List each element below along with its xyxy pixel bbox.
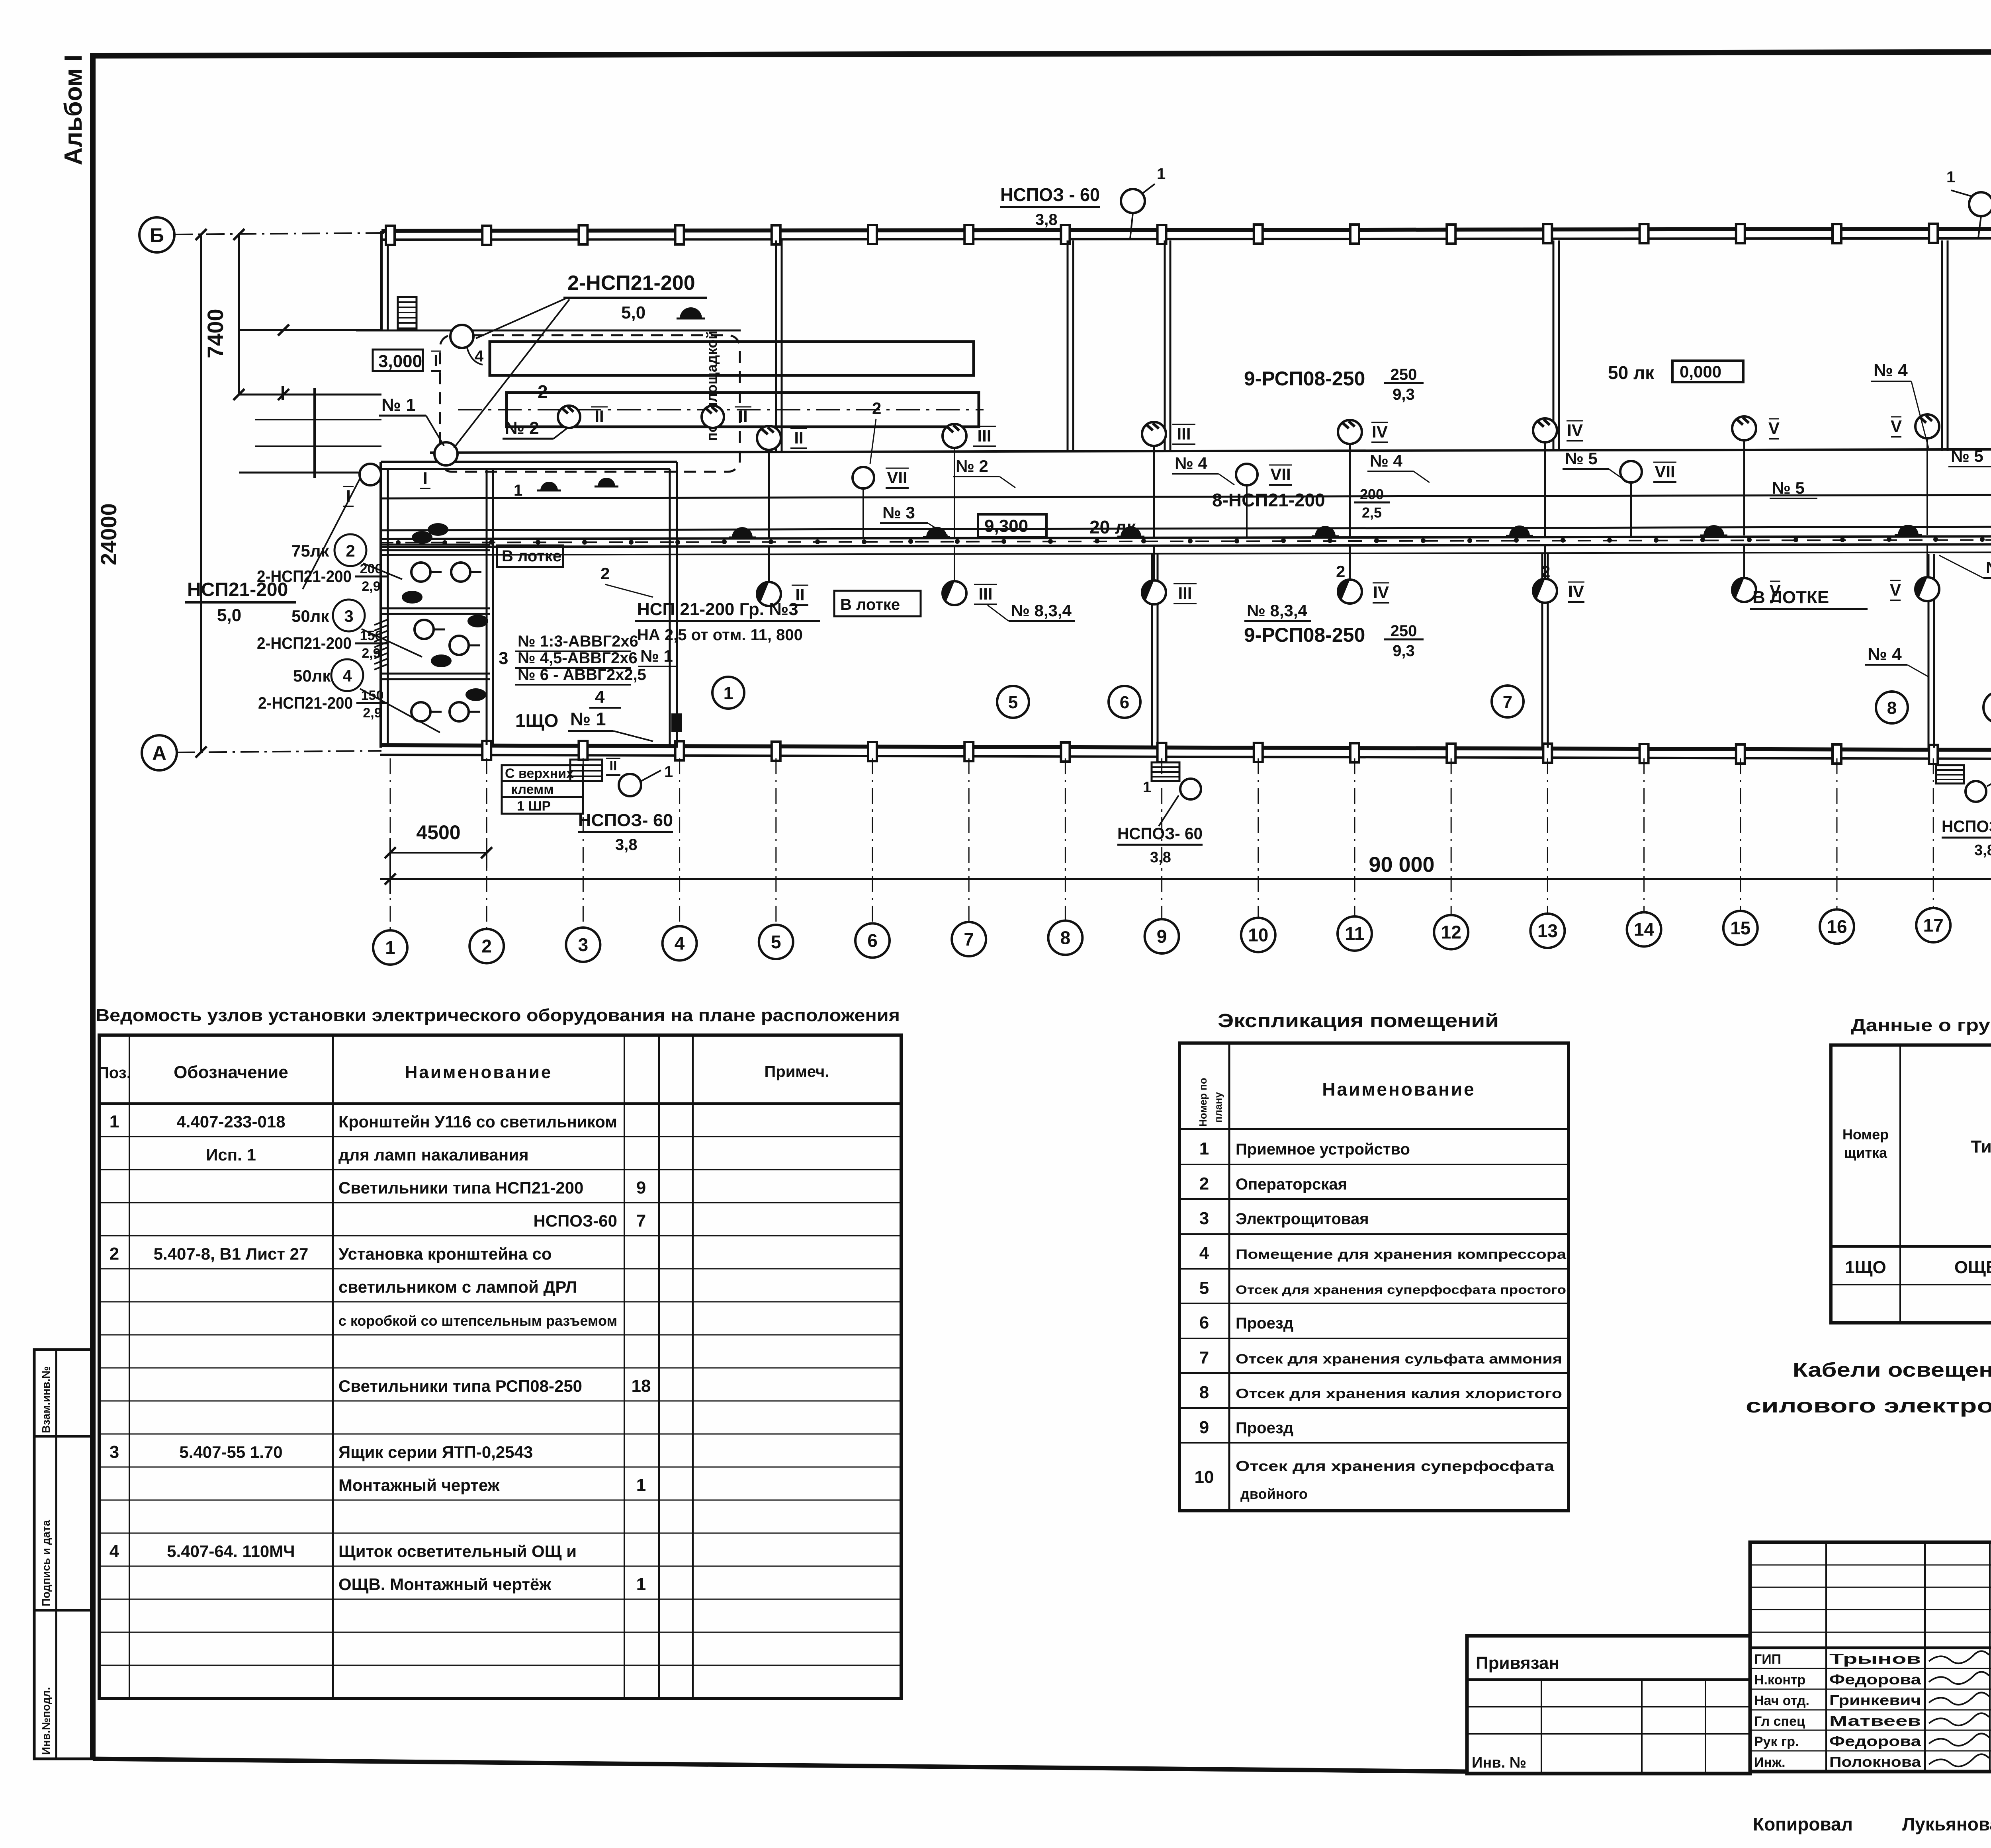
svg-text:I: I (423, 469, 428, 487)
svg-text:Гринкевич: Гринкевич (1829, 1692, 1921, 1708)
svg-text:V: V (1890, 580, 1901, 599)
svg-text:4: 4 (675, 933, 685, 954)
svg-text:Гл спец: Гл спец (1754, 1714, 1805, 1729)
svg-text:Проезд: Проезд (1236, 1315, 1293, 1332)
svg-text:7: 7 (964, 929, 974, 949)
svg-text:50 лк: 50 лк (1608, 362, 1655, 383)
lamps lower row (757, 582, 781, 606)
dimension 7400 (238, 234, 240, 395)
svg-text:3: 3 (578, 934, 589, 955)
svg-text:Монтажный чертеж: Монтажный чертеж (338, 1476, 500, 1494)
svg-text:3: 3 (344, 607, 353, 625)
svg-text:Трынов: Трынов (1829, 1651, 1921, 1667)
svg-text:НА 2,5 от отм. 11, 800: НА 2,5 от отм. 11, 800 (637, 626, 803, 644)
svg-text:5: 5 (771, 932, 781, 952)
svg-text:13: 13 (1537, 920, 1558, 941)
svg-text:№ 5: № 5 (1951, 447, 1983, 465)
svg-text:№ 4: № 4 (1370, 451, 1402, 470)
svg-text:ОЩВ- 6: ОЩВ- 6 (1954, 1258, 1991, 1277)
svg-text:3,000: 3,000 (378, 352, 422, 371)
svg-text:4500: 4500 (416, 821, 460, 844)
svg-text:7: 7 (1503, 692, 1512, 712)
svg-text:№ 4: № 4 (1175, 454, 1207, 473)
svg-text:1: 1 (664, 763, 673, 781)
svg-text:2: 2 (1336, 562, 1345, 581)
conveyor line 1 (380, 494, 1991, 498)
column grid circles 1-21 (390, 758, 391, 930)
svg-text:2: 2 (1199, 1174, 1209, 1194)
svg-text:№ 6 - АВВГ2х2,5: № 6 - АВВГ2х2,5 (518, 666, 646, 684)
svg-text:III: III (1177, 424, 1191, 443)
svg-text:С верхних: С верхних (505, 766, 574, 781)
label v lotke box left (497, 545, 563, 567)
svg-text:0,000: 0,000 (1680, 362, 1721, 381)
svg-text:1: 1 (636, 1575, 646, 1594)
svg-text:№ 4: № 4 (1868, 645, 1902, 664)
lamps in left rooms (411, 563, 430, 582)
lamp I mid (434, 442, 458, 465)
svg-text:3,8: 3,8 (615, 836, 638, 854)
svg-text:VII: VII (1270, 465, 1291, 484)
svg-text:Щиток осветительный ОЩ и: Щиток осветительный ОЩ и (338, 1542, 577, 1561)
svg-text:2,5: 2,5 (1362, 504, 1382, 521)
dimension 90000 (380, 878, 1991, 880)
svg-text:Приемное устройство: Приемное устройство (1236, 1141, 1410, 1158)
svg-text:16: 16 (1827, 916, 1847, 937)
svg-text:50лк: 50лк (293, 666, 331, 685)
svg-text:II: II (595, 407, 604, 426)
svg-text:Матвеев: Матвеев (1829, 1713, 1921, 1729)
grid axis А circle (142, 735, 177, 770)
svg-text:№ 5: № 5 (1565, 449, 1598, 468)
corridor line lower (380, 552, 1991, 555)
svg-text:8: 8 (1060, 928, 1071, 948)
partition walls upper (775, 240, 777, 451)
corridor line upper (430, 449, 1991, 453)
svg-text:№ 1: № 1 (640, 647, 673, 665)
svg-text:7: 7 (1199, 1348, 1209, 1367)
bunker rectangle 1 (490, 342, 974, 375)
svg-text:2,9: 2,9 (362, 646, 380, 661)
domes on cable tray (732, 527, 753, 537)
tray dashes (380, 539, 1991, 543)
svg-text:НСПОЗ-60: НСПОЗ-60 (533, 1211, 617, 1230)
svg-text:светильником с лампой ДРЛ: светильником с лампой ДРЛ (338, 1278, 577, 1296)
svg-text:8-НСП21-200: 8-НСП21-200 (1212, 490, 1325, 510)
svg-text:№ 2: № 2 (956, 457, 988, 475)
svg-text:1: 1 (724, 684, 733, 703)
svg-text:№ 4: № 4 (1874, 361, 1908, 380)
svg-text:1: 1 (1199, 1139, 1209, 1158)
svg-text:II: II (738, 407, 747, 426)
platform edge line (356, 330, 741, 332)
bottom lamp NSPO3 left (570, 760, 602, 781)
svg-text:А: А (152, 742, 166, 764)
svg-text:6: 6 (1199, 1313, 1209, 1332)
svg-text:10: 10 (1195, 1467, 1214, 1487)
svg-text:250: 250 (1391, 366, 1417, 383)
svg-text:Рук гр.: Рук гр. (1754, 1734, 1799, 1749)
svg-text:№ 1: № 1 (381, 395, 416, 415)
bunker rectangle 2 (507, 393, 979, 427)
svg-text:1: 1 (110, 1112, 119, 1131)
svg-text:1: 1 (1946, 168, 1955, 186)
svg-text:6: 6 (867, 930, 878, 951)
svg-text:Копировал: Копировал (1753, 1814, 1853, 1834)
svg-text:Проезд: Проезд (1236, 1419, 1293, 1437)
table shchitki frame (1831, 1045, 1991, 1323)
svg-text:4: 4 (1199, 1243, 1209, 1263)
room number circles (712, 677, 744, 709)
svg-text:№ 3: № 3 (882, 503, 915, 522)
svg-text:VII: VII (1655, 462, 1675, 481)
domes in receiving room (540, 482, 558, 490)
svg-text:4: 4 (595, 687, 605, 707)
svg-text:2-НСП21-200: 2-НСП21-200 (567, 272, 695, 295)
svg-text:2: 2 (346, 541, 355, 560)
svg-text:Ящик серии ЯТП-0,2543: Ящик серии ЯТП-0,2543 (338, 1443, 533, 1461)
svg-text:9: 9 (1157, 926, 1167, 947)
svg-text:75лк: 75лк (291, 541, 329, 560)
svg-text:4: 4 (110, 1541, 119, 1561)
svg-text:Электрощитовая: Электрощитовая (1236, 1210, 1369, 1228)
svg-text:№ 1:3-АВВГ2х6: № 1:3-АВВГ2х6 (518, 633, 638, 650)
svg-text:4.407-233-018: 4.407-233-018 (176, 1112, 285, 1131)
svg-text:№ 1: № 1 (570, 709, 606, 729)
svg-text:24000: 24000 (96, 503, 121, 565)
svg-text:Наименование: Наименование (405, 1063, 553, 1082)
svg-text:12: 12 (1441, 922, 1461, 943)
svg-text:Инв. №: Инв. № (1472, 1754, 1526, 1771)
svg-text:Операторская: Операторская (1236, 1176, 1347, 1193)
svg-text:1ЩО: 1ЩО (515, 710, 558, 731)
room scribbles (428, 523, 448, 536)
svg-text:200: 200 (1360, 486, 1384, 502)
grid axis Б line (174, 233, 384, 234)
svg-text:2: 2 (872, 399, 881, 418)
svg-text:ОЩВ. Монтажный чертёж: ОЩВ. Монтажный чертёж (338, 1575, 552, 1594)
svg-text:2,9: 2,9 (363, 705, 381, 721)
svg-text:Н.контр: Н.контр (1754, 1672, 1805, 1688)
left rooms block outline (381, 461, 677, 463)
grid axis Б circle (139, 217, 174, 252)
svg-text:В лотке: В лотке (502, 547, 561, 565)
svg-text:НСПОЗ- 60: НСПОЗ- 60 (1942, 817, 1991, 836)
table vedomost frame (99, 1035, 901, 1698)
svg-text:Кронштейн У116 со светильником: Кронштейн У116 со светильником (338, 1112, 617, 1131)
svg-text:1 ШР: 1 ШР (517, 799, 551, 814)
bottom lamp NSPO3 right (1936, 765, 1964, 783)
svg-text:1: 1 (514, 482, 522, 499)
svg-text:5.407-8, В1 Лист 27: 5.407-8, В1 Лист 27 (154, 1244, 309, 1263)
svg-text:Отсек для хранения суперфосфат: Отсек для хранения суперфосфата (1236, 1458, 1555, 1474)
svg-text:14: 14 (1634, 919, 1655, 940)
lamp I left (360, 464, 381, 485)
svg-text:6: 6 (1120, 693, 1129, 712)
svg-text:1ЩО: 1ЩО (1845, 1258, 1886, 1277)
wall building left top (380, 231, 383, 330)
svg-text:5,0: 5,0 (621, 303, 645, 322)
svg-text:щитка: щитка (1844, 1145, 1887, 1161)
dome vent top (680, 307, 702, 318)
svg-text:Федорова: Федорова (1829, 1671, 1921, 1688)
panel 1ShchO (671, 713, 682, 732)
svg-text:10: 10 (1248, 925, 1268, 945)
column ticks bottom wall (482, 741, 491, 760)
svg-text:17: 17 (1923, 915, 1944, 936)
svg-text:Помещение для хранения компрес: Помещение для хранения компрессора (1236, 1247, 1567, 1262)
conveyor line 2 (380, 526, 1991, 530)
svg-text:Тип: Тип (1971, 1137, 1991, 1156)
svg-text:IV: IV (1372, 422, 1388, 441)
svg-text:Отсек для хранения сульфата а: Отсек для хранения сульфата аммония (1236, 1352, 1562, 1367)
svg-text:Светильники типа НСП21-200: Светильники типа НСП21-200 (338, 1178, 583, 1197)
svg-text:Инж.: Инж. (1754, 1755, 1786, 1770)
svg-text:ГИП: ГИП (1754, 1652, 1781, 1667)
svg-text:с коробкой со штепсельным разъ: с коробкой со штепсельным разъемом (338, 1313, 617, 1329)
svg-text:Наименование: Наименование (1322, 1079, 1475, 1100)
svg-text:15: 15 (1730, 918, 1750, 938)
svg-text:Данные о групповых щитках с ав: Данные о групповых щитках с автоматическ… (1851, 1016, 1991, 1035)
svg-text:клемм: клемм (511, 782, 553, 797)
ramp lines left (239, 329, 381, 331)
svg-text:3,8: 3,8 (1035, 211, 1058, 229)
svg-text:9-РСП08-250: 9-РСП08-250 (1244, 367, 1365, 390)
svg-text:НСПОЗ- 60: НСПОЗ- 60 (1117, 824, 1203, 843)
labels below tray (834, 591, 921, 616)
svg-text:II: II (610, 758, 617, 774)
svg-text:III: III (978, 584, 992, 603)
svg-text:IV: IV (1568, 582, 1584, 601)
svg-text:3,8: 3,8 (1150, 849, 1171, 866)
svg-text:Кабели освещения проложить в л: Кабели освещения проложить в лотке совме… (1793, 1359, 1991, 1381)
title block main frame (1750, 1542, 1991, 1772)
svg-text:плану: плану (1212, 1092, 1224, 1123)
svg-text:2,9: 2,9 (362, 579, 380, 594)
svg-text:Номер по: Номер по (1197, 1078, 1209, 1127)
svg-text:5: 5 (1199, 1278, 1209, 1298)
svg-text:Примеч.: Примеч. (765, 1063, 829, 1080)
lamp II with label N2 (558, 406, 580, 428)
svg-text:Отсек для хранения суперфосфат: Отсек для хранения суперфосфата простого (1236, 1283, 1566, 1297)
svg-text:3: 3 (1199, 1209, 1209, 1228)
dimension 4500 left (390, 852, 487, 854)
bunker centerline 2 (458, 409, 984, 410)
svg-text:для ламп накаливания: для ламп накаливания (338, 1145, 529, 1164)
svg-text:Экспликация помещений: Экспликация помещений (1218, 1010, 1499, 1031)
svg-text:силового электрооборудования.: силового электрооборудования. (1746, 1395, 1991, 1417)
svg-text:Установка кронштейна со: Установка кронштейна со (338, 1244, 552, 1263)
dimension 24000 (200, 234, 202, 752)
svg-text:№ 8,3,4: № 8,3,4 (1011, 601, 1072, 620)
svg-text:2: 2 (1541, 562, 1550, 581)
svg-text:9: 9 (1199, 1418, 1209, 1437)
svg-text:Привязан: Привязан (1476, 1653, 1559, 1673)
column ticks top wall (386, 226, 395, 245)
svg-text:1: 1 (636, 1475, 646, 1495)
svg-text:7: 7 (636, 1211, 646, 1231)
wall building top (381, 229, 1991, 231)
svg-text:Б: Б (150, 224, 164, 246)
lamps NSP mid row (853, 467, 874, 488)
svg-text:VII: VII (887, 468, 907, 487)
svg-text:250: 250 (1391, 622, 1417, 640)
label s verhnih klemm (502, 765, 583, 814)
svg-text:НСПОЗ- 60: НСПОЗ- 60 (578, 811, 673, 830)
svg-text:III: III (1178, 584, 1192, 602)
svg-text:3: 3 (499, 649, 508, 668)
svg-text:I: I (434, 351, 438, 370)
svg-text:Исп. 1: Исп. 1 (206, 1145, 256, 1164)
svg-text:IV: IV (1373, 583, 1389, 602)
svg-text:Ведомость узлов установки элек: Ведомость узлов установки электрического… (96, 1006, 900, 1025)
svg-text:№ 4,5-АВВГ2х6: № 4,5-АВВГ2х6 (518, 649, 638, 667)
svg-text:Поз.: Поз. (98, 1064, 131, 1082)
svg-text:Инв.№подл.: Инв.№подл. (40, 1687, 52, 1755)
svg-text:5,0: 5,0 (217, 606, 241, 625)
svg-text:4: 4 (342, 666, 352, 685)
svg-text:Подпись и дата: Подпись и дата (40, 1520, 52, 1606)
svg-text:Полокнова: Полокнова (1829, 1754, 1921, 1770)
svg-text:Взам.инв.№: Взам.инв.№ (40, 1366, 52, 1433)
bottom lamp NSPO3 middle (1152, 762, 1179, 781)
svg-text:2: 2 (538, 381, 548, 402)
svg-text:8: 8 (1199, 1383, 1209, 1402)
dashed platform outline pod ploshchadkoy (440, 335, 740, 472)
svg-text:2-НСП21-200: 2-НСП21-200 (258, 693, 353, 712)
stairs top left (398, 297, 417, 328)
svg-text:№ 2: № 2 (505, 418, 539, 438)
svg-text:7400: 7400 (203, 309, 228, 358)
svg-text:1: 1 (385, 937, 395, 958)
svg-text:Светильники типа РСП08-250: Светильники типа РСП08-250 (338, 1377, 582, 1395)
svg-text:НСПОЗ - 60: НСПОЗ - 60 (1000, 184, 1100, 205)
svg-text:9: 9 (636, 1178, 646, 1197)
svg-text:№ 3,5: № 3,5 (1986, 558, 1991, 577)
svg-text:2: 2 (481, 936, 492, 957)
svg-text:II: II (794, 428, 803, 447)
svg-text:11: 11 (1345, 923, 1365, 944)
svg-text:9,3: 9,3 (1393, 642, 1415, 660)
svg-text:двойного: двойного (1240, 1486, 1308, 1502)
svg-text:9-РСП08-250: 9-РСП08-250 (1244, 624, 1365, 646)
table explikacia frame (1179, 1043, 1569, 1511)
svg-text:№ 8,3,4: № 8,3,4 (1247, 601, 1308, 620)
svg-text:Обозначение: Обозначение (174, 1063, 288, 1082)
svg-text:3: 3 (110, 1442, 119, 1462)
svg-text:5: 5 (1008, 693, 1018, 712)
svg-text:В ЛОТКЕ: В ЛОТКЕ (1752, 588, 1829, 607)
svg-text:2: 2 (600, 564, 610, 583)
svg-text:Альбом I: Альбом I (60, 55, 87, 165)
svg-text:2-НСП21-200: 2-НСП21-200 (257, 567, 352, 586)
svg-text:V: V (1891, 417, 1902, 436)
svg-text:9,300: 9,300 (984, 516, 1028, 536)
svg-text:1: 1 (1157, 165, 1166, 183)
svg-text:НСП 21-200 Гр. №3: НСП 21-200 Гр. №3 (637, 600, 798, 619)
svg-text:20 лк: 20 лк (1089, 517, 1136, 537)
svg-text:9,3: 9,3 (1393, 386, 1415, 403)
label 3.000 box (373, 350, 423, 371)
svg-text:18: 18 (632, 1376, 651, 1396)
svg-text:5.407-55 1.70: 5.407-55 1.70 (179, 1443, 282, 1461)
lamps RSP upper row (757, 426, 781, 450)
grid axis А line (177, 751, 381, 752)
svg-text:90 000: 90 000 (1369, 853, 1434, 877)
margin stamp strip (34, 1350, 93, 1759)
svg-text:В лотке: В лотке (840, 596, 900, 613)
svg-text:50лк: 50лк (291, 607, 329, 625)
svg-text:Номер: Номер (1842, 1126, 1889, 1143)
svg-text:III: III (977, 426, 991, 445)
title block attach stamp (1467, 1636, 1750, 1774)
partition walls lower (1151, 554, 1153, 748)
lamp I top (450, 325, 473, 348)
wall building bottom (380, 745, 1991, 751)
svg-text:Федорова: Федорова (1829, 1733, 1921, 1749)
svg-text:5.407-64. 110МЧ: 5.407-64. 110МЧ (167, 1542, 295, 1561)
svg-text:2: 2 (110, 1244, 119, 1264)
svg-text:Отсек для хранения калия хлори: Отсек для хранения калия хлористого (1236, 1386, 1562, 1401)
svg-text:№ 5: № 5 (1772, 479, 1805, 497)
svg-text:8: 8 (1887, 698, 1897, 718)
svg-text:Нач отд.: Нач отд. (1754, 1693, 1809, 1708)
cable tray lotok (380, 536, 1991, 539)
svg-text:IV: IV (1567, 421, 1583, 440)
svg-text:2-НСП21-200: 2-НСП21-200 (257, 634, 352, 652)
svg-text:3,8: 3,8 (1974, 842, 1991, 859)
lamp II right of block (702, 406, 724, 428)
label 9,300 box (978, 514, 1046, 537)
svg-text:Лукьянова: Лукьянова (1902, 1814, 1991, 1834)
left rooms partitions (381, 544, 490, 546)
svg-text:V: V (1768, 419, 1780, 438)
svg-text:1: 1 (1143, 779, 1151, 796)
title block signature grid (1825, 1542, 1827, 1772)
